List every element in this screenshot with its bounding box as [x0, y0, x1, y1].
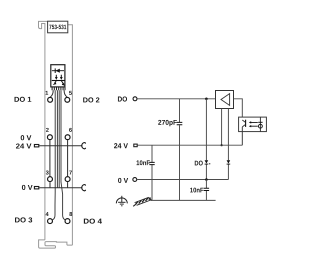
module housing right edge: [68, 25, 73, 245]
24V rail right: [138, 144, 243, 146]
terminal circle 1: [48, 97, 53, 102]
pin number 7: [69, 171, 72, 175]
capacitor C2 plates: [177, 122, 183, 124]
function icon box: [51, 65, 65, 87]
earth symbol: [116, 196, 127, 206]
24V rail left: [39, 145, 81, 147]
terminal stems: [50, 140, 68, 188]
driver supply pin wire: [221, 109, 223, 146]
terminal circle 8: [65, 219, 70, 224]
wire to terminal 1: [50, 90, 53, 97]
clamp diode D2: [227, 160, 231, 164]
label 270pF: [158, 120, 177, 126]
node dot on 0V rail: [205, 178, 208, 181]
0V square terminal left: [34, 187, 38, 189]
label DO right: [118, 96, 127, 101]
driver triangle: [221, 94, 230, 106]
LED element: [258, 117, 262, 132]
label 0 V row3: [22, 185, 33, 190]
terminal circle 2: [47, 135, 52, 140]
capacitor C1 plates: [149, 162, 154, 164]
optocoupler status box U2: [239, 117, 267, 132]
light arrows: [249, 121, 258, 127]
label DO small: [195, 161, 203, 166]
icon box pin comb: [52, 87, 65, 90]
0V rail left: [39, 187, 81, 189]
driver op-amp box U1: [216, 91, 234, 109]
wire DO node down to 0V: [205, 99, 207, 180]
module housing bottom foot: [39, 240, 73, 248]
24V power jumper contact: [82, 143, 86, 149]
pin number 6: [69, 128, 72, 132]
driver output wire to optocoupler: [234, 99, 243, 120]
terminal circle 6: [65, 135, 70, 140]
0V power jumper contact: [82, 185, 86, 191]
icon top diode: [52, 68, 64, 73]
capacitor C3 10nF wire: [205, 180, 207, 201]
label 24 V left: [16, 143, 31, 148]
label DO 4: [84, 219, 102, 224]
label 0 V row2: [21, 135, 32, 140]
wire to terminal 5: [64, 90, 67, 97]
753-531 label box: [48, 21, 68, 33]
terminal circle 7: [65, 177, 70, 182]
DO terminal circle: [133, 97, 137, 101]
driver pin wire to diode D2: [227, 109, 229, 180]
label 10nF C1: [137, 160, 150, 165]
753-531 label text: [49, 25, 66, 30]
label DO 2: [83, 97, 99, 102]
pin number 5: [69, 91, 72, 95]
label DO 3: [15, 217, 32, 222]
clamp diode D1: [205, 160, 211, 164]
label 10nF C3: [190, 188, 203, 193]
terminal circle 3: [48, 177, 53, 182]
24V square terminal right: [134, 144, 137, 147]
wire bundle: [53, 90, 66, 220]
junction dot supply pin: [221, 144, 223, 146]
capacitor C3 plates: [204, 188, 209, 190]
label 0 V right: [118, 178, 128, 183]
ground rail: [151, 199, 216, 201]
module housing top claw and left edge: [39, 21, 48, 240]
icon bottom LED pair: [52, 75, 66, 86]
0V terminal circle right: [133, 178, 137, 182]
terminal circle 5: [65, 97, 70, 102]
pin number 8: [69, 212, 72, 216]
capacitor C1 10nF wire: [151, 145, 153, 200]
capacitor C2 270pF wire: [179, 99, 181, 201]
label 24 V right: [114, 143, 128, 148]
chassis ground symbol: [133, 197, 151, 206]
DO rail wire: [137, 98, 215, 100]
pin number 2: [46, 128, 49, 132]
terminal circle 4: [48, 219, 53, 224]
pin number 4: [46, 212, 49, 216]
24V square terminal left: [34, 145, 38, 147]
node dot on DO rail: [205, 98, 208, 101]
label DO 1: [15, 97, 32, 102]
pin number 3: [46, 171, 49, 175]
0V rail right: [137, 179, 228, 181]
phototransistor glyph: [242, 120, 245, 146]
pin number 1: [46, 91, 49, 95]
